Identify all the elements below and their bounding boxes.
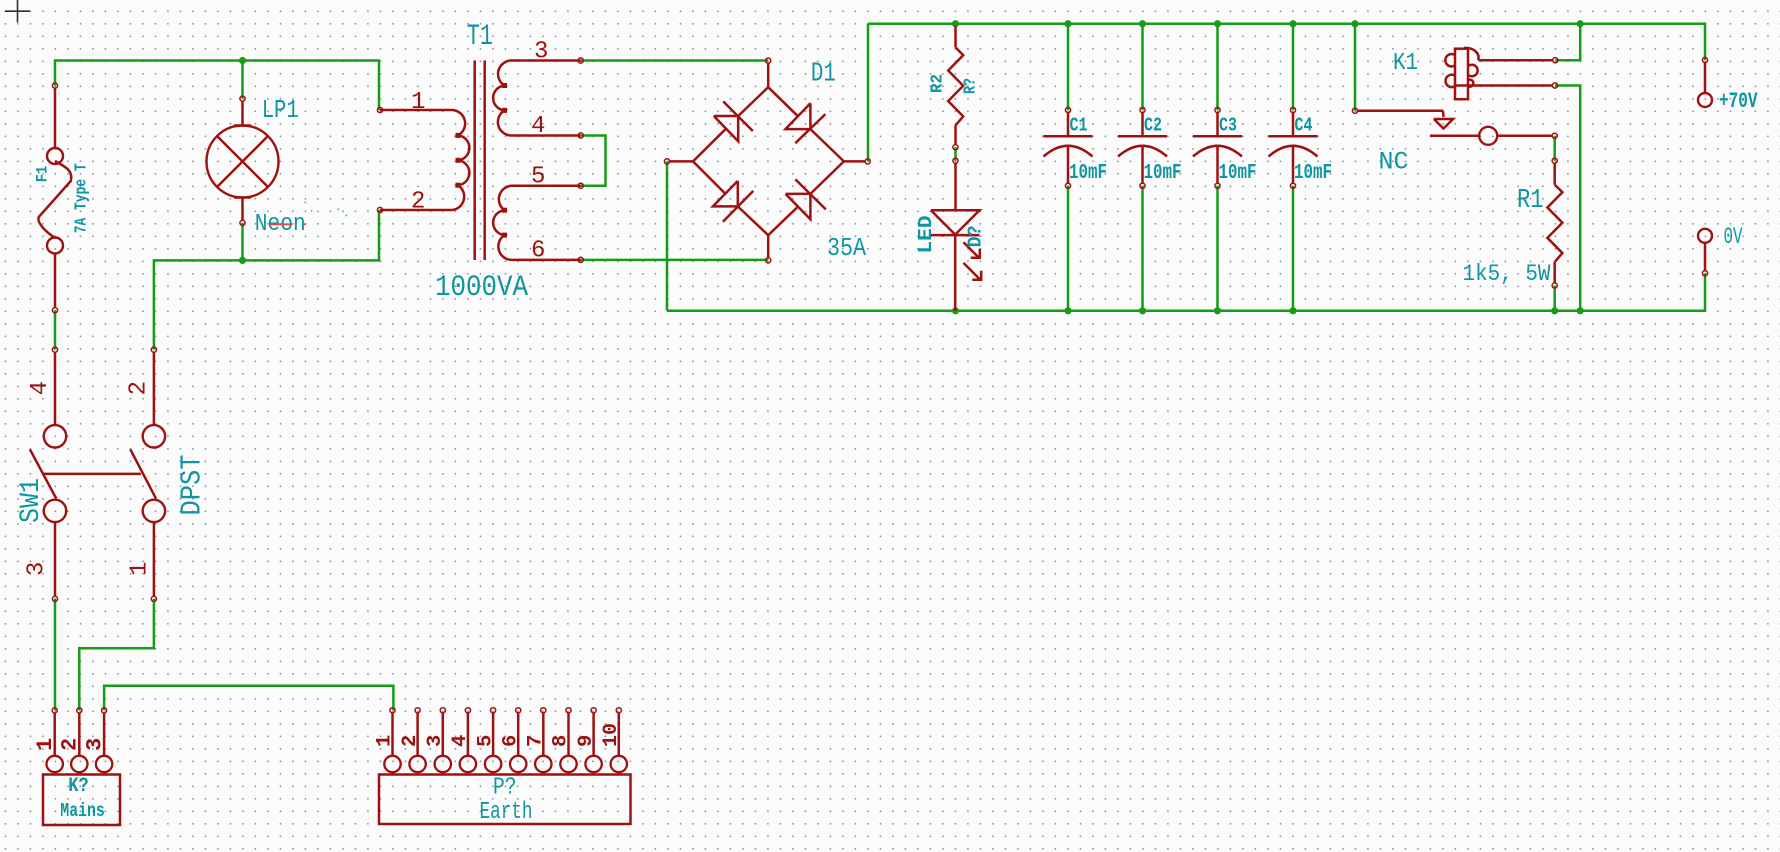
connector P? pin 5 xyxy=(491,708,496,713)
svg-text:LP1: LP1 xyxy=(262,95,299,125)
diode D1d (bottom-right edge) xyxy=(768,207,798,236)
svg-text:1: 1 xyxy=(127,562,154,576)
artifact: stray cyan specks xyxy=(305,202,307,204)
svg-text:Earth: Earth xyxy=(480,799,533,826)
svg-text:D1: D1 xyxy=(811,60,836,90)
bridge rectifier D1 35A xyxy=(766,58,771,63)
connector K? pin 2 xyxy=(77,708,82,713)
capacitor C2 10mF xyxy=(1140,107,1145,112)
connector K? pin 3 xyxy=(102,708,107,713)
wire: T1 pin4 to pin5 jumper xyxy=(581,136,606,186)
connector P? pin 3 xyxy=(440,708,445,713)
svg-text:7A Type T: 7A Type T xyxy=(73,163,92,233)
svg-text:1000VA: 1000VA xyxy=(435,271,528,305)
svg-text:0V: 0V xyxy=(1724,224,1743,250)
connector P? pin 9 xyxy=(591,708,596,713)
transformer T1 secondary winding B (pins 5,6) xyxy=(578,183,583,188)
svg-text:2: 2 xyxy=(399,735,422,747)
LED light arrow 1 xyxy=(964,242,980,258)
svg-text:3: 3 xyxy=(534,39,548,66)
svg-text:T1: T1 xyxy=(467,20,493,54)
terminal 0V output xyxy=(1698,229,1712,243)
node: junctions on +70V rail xyxy=(952,20,959,27)
svg-text:9: 9 xyxy=(575,735,598,747)
fuse F1 7A Type T xyxy=(52,83,57,88)
resistor R1 1k5 5W (bleeder) xyxy=(1552,158,1557,163)
wire: +70V top rail xyxy=(868,24,1705,60)
wire: LP1 bottom drop xyxy=(241,223,244,261)
wire: 0V bottom rail xyxy=(667,273,1705,311)
svg-text:D?: D? xyxy=(965,225,987,247)
diode D1a (left-top edge) xyxy=(693,129,726,162)
svg-text:1: 1 xyxy=(33,738,58,751)
svg-text:C2: C2 xyxy=(1144,115,1162,137)
relay K1 armature arrow xyxy=(1352,108,1357,113)
svg-text:6: 6 xyxy=(499,735,522,747)
svg-text:K1: K1 xyxy=(1393,50,1418,77)
svg-text:C1: C1 xyxy=(1070,115,1088,137)
capacitor C1 10mF xyxy=(1065,107,1070,112)
svg-text:2: 2 xyxy=(126,381,153,395)
wire: C2 top drop xyxy=(1141,24,1144,110)
relay K1 NC contact xyxy=(1430,135,1479,138)
wire: connector K pin3 to earth connector P pin1 xyxy=(104,686,393,711)
wire: mains live top (fuse to LP1 to T1 pin1) xyxy=(55,61,379,111)
svg-text:3: 3 xyxy=(82,738,107,751)
wire: neutral return (SW1 pole2 to LP1 bottom to T1 pin2) xyxy=(154,210,379,350)
switch SW1 pole 1 (pins 4,3) xyxy=(52,347,57,352)
wire: K1 coil feed from +70V rail xyxy=(1354,24,1357,111)
relay K1 coil xyxy=(1455,49,1468,99)
svg-text:3: 3 xyxy=(24,562,51,576)
wire: C3 top drop xyxy=(1216,24,1219,110)
diode D1c (left-bottom edge) xyxy=(693,161,725,193)
node: junctions on 0V rail xyxy=(952,307,959,314)
lamp LP1 (neon) xyxy=(240,96,245,101)
wire: R1 bottom to 0V rail xyxy=(1553,286,1556,311)
svg-text:35A: 35A xyxy=(827,234,867,263)
svg-text:10: 10 xyxy=(600,723,623,747)
wire: K1 coil pin2 to 0V rail xyxy=(1555,86,1580,311)
svg-text:NC: NC xyxy=(1379,148,1409,177)
wire: LP1 top drop xyxy=(241,61,244,99)
svg-text:2: 2 xyxy=(411,189,425,216)
svg-text:6: 6 xyxy=(531,238,545,265)
svg-text:LED: LED xyxy=(915,216,937,254)
svg-text:1: 1 xyxy=(374,735,397,747)
svg-text:DPST: DPST xyxy=(176,455,209,516)
svg-text:4: 4 xyxy=(27,381,54,395)
wire: SW1 pole1 bottom to connector K pin1 xyxy=(54,599,57,711)
svg-text:SW1: SW1 xyxy=(16,478,47,523)
wire: C4 top drop xyxy=(1292,24,1295,110)
LED light arrow 2 xyxy=(964,263,981,280)
wire: K1 contact to R1 top xyxy=(1553,136,1556,161)
connector K? pin 1 xyxy=(52,708,57,713)
wire: R2-LED pin link xyxy=(954,147,957,161)
terminal +70V output xyxy=(1702,57,1707,62)
svg-text:10mF: 10mF xyxy=(1144,162,1182,185)
svg-text:4: 4 xyxy=(449,735,472,747)
svg-text:K?: K? xyxy=(68,775,89,798)
connector P? Earth xyxy=(379,775,631,825)
wire: C3 bottom drop xyxy=(1216,186,1219,311)
wire: C1 bottom drop xyxy=(1067,186,1070,311)
svg-text:4: 4 xyxy=(531,113,545,140)
sheet origin crosshair xyxy=(5,10,30,12)
wire: C4 bottom drop xyxy=(1292,186,1295,311)
svg-text:C4: C4 xyxy=(1295,115,1313,137)
svg-text:8: 8 xyxy=(550,735,573,747)
wire: T1 pin6 to bridge bottom xyxy=(581,259,769,262)
capacitor C3 10mF xyxy=(1215,107,1220,112)
svg-text:P?: P? xyxy=(493,775,517,802)
svg-text:1: 1 xyxy=(411,89,425,116)
wire: SW1 pole2 bottom to connector K pin2 xyxy=(79,599,154,711)
transformer T1 core xyxy=(473,61,476,261)
resistor R2 (LED dropper) xyxy=(954,26,957,47)
svg-text:Mains: Mains xyxy=(60,800,105,822)
wire: bridge left (DC minus) down to 0V rail xyxy=(666,161,669,310)
connector P? pin 1 xyxy=(390,708,395,713)
svg-text:7: 7 xyxy=(525,735,548,747)
svg-text:1k5, 5W: 1k5, 5W xyxy=(1463,261,1551,287)
LED D? (power indicator) xyxy=(953,158,958,163)
connector P? pin 7 xyxy=(541,708,546,713)
node: junction LP1 bottom xyxy=(239,257,246,264)
switch SW1 mechanical link xyxy=(42,473,141,476)
svg-text:10mF: 10mF xyxy=(1219,162,1257,185)
svg-text:R1: R1 xyxy=(1517,186,1544,216)
connector P? pin 2 xyxy=(415,708,420,713)
svg-text:R2: R2 xyxy=(929,74,948,93)
node: junction LP1 top xyxy=(239,57,246,64)
svg-text:10mF: 10mF xyxy=(1294,162,1332,185)
connector P? pin 8 xyxy=(566,708,571,713)
svg-text:2: 2 xyxy=(58,738,83,751)
svg-text:R?: R? xyxy=(962,78,981,94)
wire: C2 bottom drop xyxy=(1141,186,1144,311)
svg-text:C3: C3 xyxy=(1219,115,1237,137)
switch SW1 pole 2 (pins 2,1) xyxy=(151,347,156,352)
svg-text:+70V: +70V xyxy=(1719,88,1758,114)
transformer T1 secondary winding A (pins 3,4) xyxy=(578,58,583,63)
connector P? pin 4 xyxy=(465,708,470,713)
wire: bridge right (DC plus) up to +70V rail xyxy=(867,24,870,162)
connector K? Mains xyxy=(43,775,120,826)
transformer T1 primary winding (pins 1,2) xyxy=(377,107,382,112)
connector P? pin 10 xyxy=(616,708,621,713)
wire: K1 coil pin1 to +70V rail xyxy=(1555,24,1580,60)
svg-text:5: 5 xyxy=(531,164,545,191)
wire: fuse bottom to SW1 pole1 xyxy=(54,310,57,349)
svg-text:10mF: 10mF xyxy=(1069,162,1107,185)
wire: T1 pin3 to bridge top xyxy=(581,59,769,62)
svg-text:F1: F1 xyxy=(34,166,52,183)
svg-text:5: 5 xyxy=(474,735,497,747)
connector P? pin 6 xyxy=(516,708,521,713)
artifact: red strike line through Neon xyxy=(270,223,292,225)
wire: C1 top drop xyxy=(1067,24,1070,110)
capacitor C4 10mF xyxy=(1290,107,1295,112)
diode D1b (top-right edge) xyxy=(768,87,798,116)
svg-text:3: 3 xyxy=(424,735,447,747)
